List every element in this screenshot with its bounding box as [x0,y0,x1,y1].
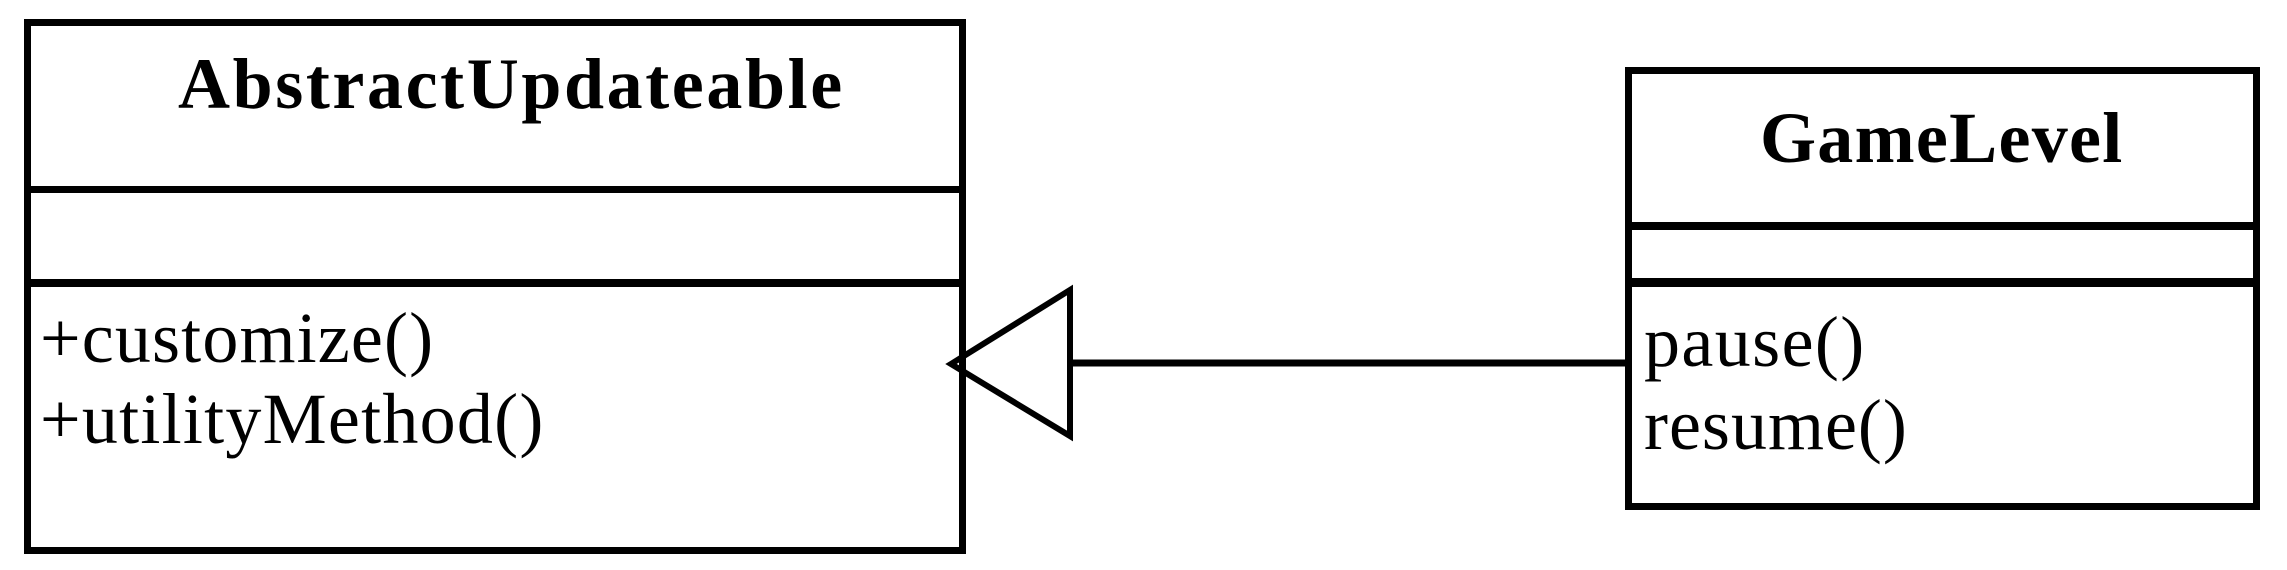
attributes compartment (empty) [31,193,959,287]
wire: horizontal connector line [1070,360,1629,367]
class box GameLevel [1625,67,2260,510]
methods compartment [1632,287,2253,503]
attributes compartment (empty) [1632,230,2253,287]
method pause() [1644,306,1866,378]
class box AbstractUpdateable [24,19,966,554]
title compartment [1632,74,2253,230]
hollow triangle arrowhead [951,290,1070,436]
method +customize() [40,302,434,374]
class name GameLevel [1760,102,2124,174]
class name AbstractUpdateable [178,48,845,120]
method resume() [1644,389,1908,461]
methods compartment [31,287,959,547]
method +utilityMethod() [40,383,545,455]
title compartment [31,26,959,193]
